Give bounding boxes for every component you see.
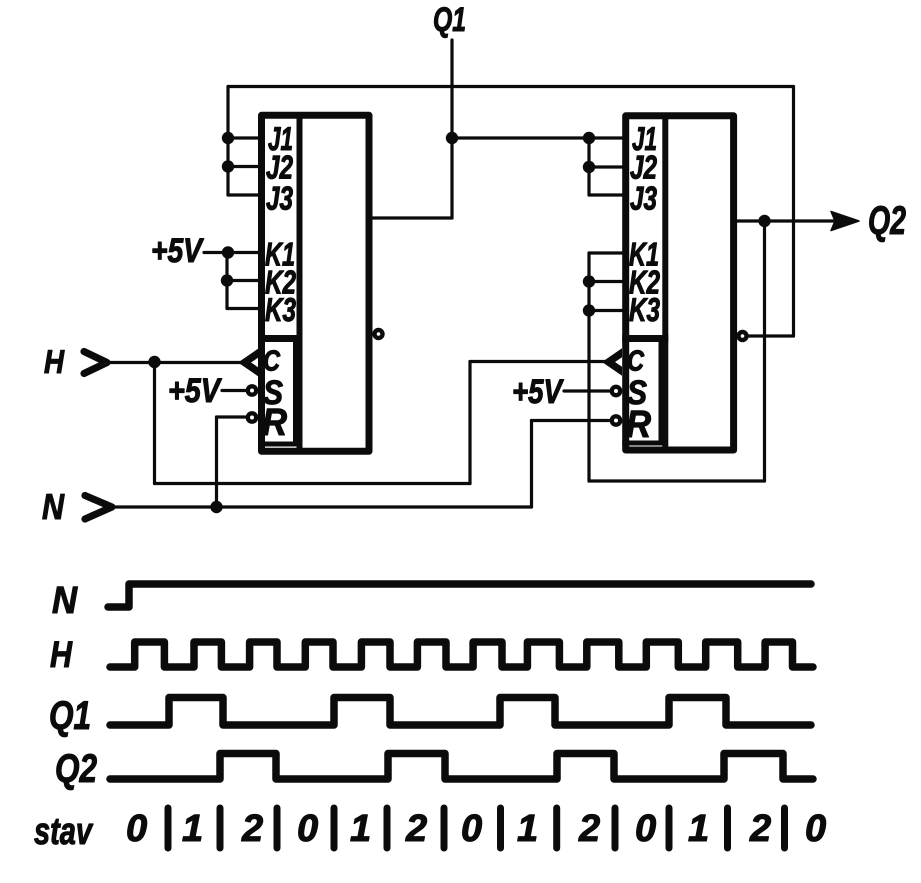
svg-text:0: 0 <box>126 808 147 850</box>
node junction at FF1 J1 <box>222 132 234 144</box>
waveform H <box>110 642 813 667</box>
svg-text:Q1: Q1 <box>49 694 91 738</box>
svg-text:+5V: +5V <box>168 372 223 410</box>
wire FF2 K rise to Q2 <box>763 221 766 481</box>
label +5V for FF1 S <box>168 372 223 410</box>
pin label FF1 J1 <box>268 120 293 157</box>
svg-text:0: 0 <box>461 808 482 850</box>
waveform Q2 <box>110 754 813 780</box>
svg-text:stav: stav <box>34 811 93 853</box>
wire FF2 K2 stub <box>589 280 623 283</box>
wire H net vertical drop <box>153 362 156 484</box>
arrow Q2 output head <box>831 212 859 231</box>
svg-text:+5V: +5V <box>151 232 205 270</box>
waveform Q1 <box>110 698 811 726</box>
output bubble FF1 Qbar <box>375 330 383 338</box>
pin label FF2 K3 <box>629 291 660 328</box>
wire +5V to FF1 S bubble <box>222 389 245 392</box>
clock input triangle FF1 C <box>238 349 258 376</box>
svg-text:N: N <box>52 580 78 622</box>
wire FF1 J1 stub <box>228 136 259 139</box>
wire feedback right vertical <box>792 87 795 337</box>
wire FF2 K vertical <box>587 253 590 481</box>
svg-text:R: R <box>626 404 651 446</box>
wire FF2 Q2bar stub <box>746 334 794 337</box>
state divider <box>165 808 172 848</box>
clock input triangle FF2 C <box>602 348 622 375</box>
wire FF1 K3 stub <box>227 307 259 310</box>
state value 0 <box>635 808 656 850</box>
state value 0 <box>297 808 318 850</box>
svg-text:K3: K3 <box>629 291 660 328</box>
state divider <box>331 808 338 848</box>
wire N to FF2 R bubble <box>532 419 610 422</box>
state divider <box>781 808 788 848</box>
pin label FF1 K1 <box>265 236 295 273</box>
svg-text:2: 2 <box>405 808 427 850</box>
wire FF2 J2 stub <box>589 165 623 168</box>
state value 1 <box>688 808 709 850</box>
node junction N/R1 <box>210 501 222 513</box>
svg-text:2: 2 <box>749 808 771 850</box>
timing label Q1 <box>49 694 91 738</box>
node junction at FF1 J2 <box>222 160 234 172</box>
state divider <box>553 808 560 848</box>
pin label FF2 C <box>627 346 645 378</box>
state divider <box>497 808 504 848</box>
wire +5V to FF1 K1 <box>204 251 259 254</box>
state divider <box>724 808 731 848</box>
timing label N <box>52 580 78 622</box>
wire Q1 vertical from label to Q output row <box>450 40 453 218</box>
pin label FF2 J1 <box>632 120 657 157</box>
svg-text:2: 2 <box>241 808 263 850</box>
flip-flop U1 body <box>258 115 369 451</box>
flip-flop U2 body <box>622 116 733 450</box>
pin bubble FF1 S <box>248 386 256 394</box>
wire feedback top horizontal (Q2bar to FF1 J inputs) <box>228 85 794 88</box>
wire H net to FF2 C <box>470 360 607 363</box>
label N input <box>42 486 65 527</box>
svg-text:J3: J3 <box>266 180 293 217</box>
svg-text:1: 1 <box>350 808 371 850</box>
pin bubble FF2 S <box>612 387 620 395</box>
pin bubble FF2 R <box>612 416 620 424</box>
node junction Q1/J1 <box>446 132 458 144</box>
svg-text:0: 0 <box>297 808 318 850</box>
pin label FF2 J2 <box>630 149 657 186</box>
svg-text:1: 1 <box>688 808 709 850</box>
wire H net bottom horizontal <box>155 482 471 485</box>
node Q1 label <box>433 1 466 39</box>
pin label FF1 S <box>263 374 283 412</box>
pin label FF1 J3 <box>266 180 293 217</box>
pin bubble FF1 R <box>248 413 256 421</box>
pin label FF2 K2 <box>629 264 660 301</box>
state value 0 <box>461 808 482 850</box>
svg-text:C: C <box>627 346 645 378</box>
wire +5V to FF2 S bubble <box>564 389 609 392</box>
wire FF2 K3 stub <box>589 309 623 312</box>
output bubble FF2 Qbar <box>739 332 747 340</box>
node junction at FF2 J2 <box>583 161 595 173</box>
label stav <box>34 811 93 853</box>
state value 2 <box>405 808 427 850</box>
wire FF1 R left <box>217 415 246 418</box>
svg-text:+5V: +5V <box>512 373 565 411</box>
pin label FF1 R <box>262 402 287 444</box>
state value 2 <box>749 808 771 850</box>
wire FF1 R down to N <box>215 417 218 507</box>
timing label Q2 <box>55 747 97 791</box>
node junction Q2 feedback <box>758 215 770 227</box>
pin label FF2 R <box>626 404 651 446</box>
pin label FF1 K2 <box>265 264 296 301</box>
wire FF2 J vertical <box>587 138 590 195</box>
state value 0 <box>805 808 826 850</box>
pin label FF1 J2 <box>266 149 293 186</box>
state divider <box>612 808 619 848</box>
wire FF1 J3 stub <box>228 193 259 196</box>
state value 1 <box>517 808 538 850</box>
connector N input chevron <box>85 496 112 520</box>
wire FF1 K2 stub <box>227 279 259 282</box>
svg-text:2: 2 <box>578 808 600 850</box>
svg-text:C: C <box>263 346 281 378</box>
wire FF1 K vertical <box>225 253 228 309</box>
state value 0 <box>126 808 147 850</box>
wire H to FF1 C <box>104 361 243 364</box>
wire H net rise to FF2 C <box>468 362 471 484</box>
label +5V for FF1 K inputs <box>151 232 205 270</box>
pin label FF2 J3 <box>630 180 657 217</box>
wire FF2 K bottom horizontal <box>589 479 765 482</box>
label H input <box>44 343 65 380</box>
svg-text:H: H <box>50 634 73 675</box>
pin label FF1 C <box>263 346 281 378</box>
node junction at FF1 K2 <box>221 274 233 286</box>
wire FF1 J vertical <box>226 87 229 196</box>
state value 1 <box>182 808 203 850</box>
pin label FF2 K1 <box>629 236 659 273</box>
state divider <box>441 808 448 848</box>
svg-text:Q2: Q2 <box>868 199 906 243</box>
svg-text:R: R <box>262 402 287 444</box>
wire Q2 output <box>737 219 840 222</box>
node junction at FF2 K2 <box>583 275 595 287</box>
svg-text:H: H <box>44 343 65 380</box>
label +5V for FF2 S <box>512 373 565 411</box>
state divider <box>217 808 224 848</box>
svg-text:0: 0 <box>805 808 826 850</box>
label Q2 output <box>868 199 906 243</box>
wire N horizontal <box>110 505 532 508</box>
wire FF2 J3 stub <box>589 193 623 196</box>
wire Q1 horizontal to FF2 J1 <box>452 136 623 139</box>
state value 2 <box>578 808 600 850</box>
pin label FF2 S <box>627 374 647 412</box>
timing label H <box>50 634 73 675</box>
svg-text:1: 1 <box>517 808 538 850</box>
pin label FF1 K3 <box>265 291 296 328</box>
wire FF1 J2 stub <box>228 165 259 168</box>
state value 1 <box>350 808 371 850</box>
node junction at FF1 K1 <box>222 246 234 258</box>
node junction at FF2 K3 <box>583 304 595 316</box>
node junction at FF2 J1 <box>583 132 595 144</box>
svg-text:K3: K3 <box>265 291 296 328</box>
svg-text:N: N <box>42 486 65 527</box>
connector H input chevron <box>84 352 107 374</box>
state divider <box>274 808 281 848</box>
state divider <box>384 808 391 848</box>
state divider <box>666 808 673 848</box>
svg-text:1: 1 <box>182 808 203 850</box>
wire N rise to FF2 R <box>530 421 533 508</box>
wire FF1 Q output stub <box>369 216 452 219</box>
state value 2 <box>241 808 263 850</box>
wire FF2 K1 stub <box>589 251 623 254</box>
svg-text:0: 0 <box>635 808 656 850</box>
node junction H <box>148 356 160 368</box>
svg-text:Q2: Q2 <box>55 747 97 791</box>
svg-text:Q1: Q1 <box>433 1 466 39</box>
waveform N <box>108 584 811 607</box>
svg-text:J3: J3 <box>630 180 657 217</box>
